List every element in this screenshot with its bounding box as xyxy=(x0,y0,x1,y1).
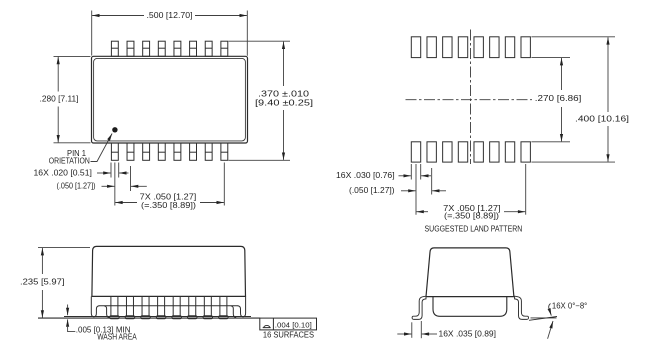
svg-text:16 SURFACES: 16 SURFACES xyxy=(263,330,314,339)
svg-text:16X .020 [0.51]: 16X .020 [0.51] xyxy=(34,169,92,178)
svg-text:.500 [12.70]: .500 [12.70] xyxy=(147,11,193,20)
svg-text:16X .035 [0.89]: 16X .035 [0.89] xyxy=(439,329,497,338)
svg-text:ORIETATION: ORIETATION xyxy=(49,157,90,166)
svg-text:(.050 [1.27]): (.050 [1.27]) xyxy=(57,182,96,191)
svg-text:SUGGESTED LAND PATTERN: SUGGESTED LAND PATTERN xyxy=(425,225,523,234)
svg-text:[9.40 ±0.25]: [9.40 ±0.25] xyxy=(255,98,313,107)
svg-text:(.050 [1.27]): (.050 [1.27]) xyxy=(349,186,395,195)
svg-text:16X .030 [0.76]: 16X .030 [0.76] xyxy=(336,171,395,180)
svg-text:(=.350 [8.89]): (=.350 [8.89]) xyxy=(141,201,196,210)
svg-text:.004 [0.10]: .004 [0.10] xyxy=(275,321,312,330)
svg-text:16X 0°−8°: 16X 0°−8° xyxy=(552,302,587,311)
svg-text:WASH AREA: WASH AREA xyxy=(97,333,137,342)
svg-text:.400 [10.16]: .400 [10.16] xyxy=(575,115,629,124)
svg-text:.280 [7.11]: .280 [7.11] xyxy=(40,95,79,104)
svg-text:.270 [6.86]: .270 [6.86] xyxy=(535,94,582,103)
svg-text:(=.350 [8.89]): (=.350 [8.89]) xyxy=(444,212,499,221)
svg-text:.235 [5.97]: .235 [5.97] xyxy=(20,278,65,287)
